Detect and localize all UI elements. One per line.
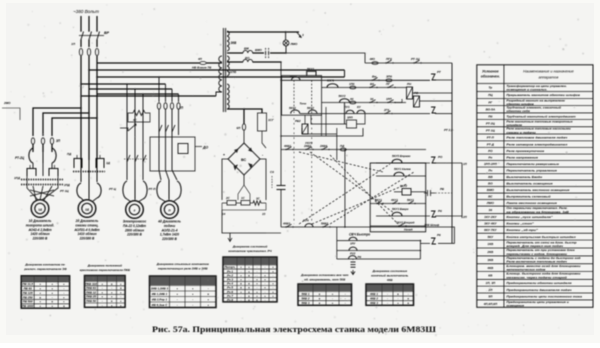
svg-text:Рб: Рб <box>438 209 442 213</box>
svg-text:-: - <box>177 303 178 307</box>
legend row 1КУ-2КУ <box>477 213 593 215</box>
svg-text:ЗПб: ЗПб <box>386 75 392 79</box>
contact 3RU2 <box>349 256 357 259</box>
svg-text:+: + <box>39 287 41 291</box>
svg-text:1ПД: 1ПД <box>14 176 21 180</box>
selector contact on rung2 <box>292 77 301 80</box>
legend row Пб <box>477 112 593 114</box>
svg-text:1КВ: 1КВ <box>487 242 494 246</box>
svg-text:+: + <box>63 282 65 286</box>
legend row ВМО <box>477 185 593 187</box>
svg-text:+: + <box>51 291 53 295</box>
svg-text:+: + <box>63 295 65 299</box>
svg-text:Выпрямитель селеновый: Выпрямитель селеновый <box>506 195 550 199</box>
svg-text:Рп: Рп <box>488 155 492 159</box>
wire tap B <box>97 76 345 78</box>
svg-text:ВВ: ВВ <box>488 175 493 179</box>
legend row 2П <box>477 285 593 287</box>
wire to fuses <box>80 40 82 48</box>
connector dashes <box>265 48 267 58</box>
svg-text:об. вешрамваемь, мот 5КВ: об. вешрамваемь, мот 5КВ <box>304 277 346 281</box>
svg-text:РТ-1Ц: РТ-1Ц <box>486 129 496 133</box>
contact PG3 <box>387 87 388 88</box>
wire rung6 <box>281 149 426 151</box>
svg-text:ИВ 2,Рпр 1: ИВ 2,Рпр 1 <box>152 297 168 301</box>
svg-text:ПВ 125: ПВ 125 <box>23 291 33 295</box>
fuse PD rung6 <box>340 148 346 151</box>
svg-text:5КУ: 5КУ <box>487 235 494 239</box>
wire bus L1 down <box>80 56 82 160</box>
wire mid vertical c <box>325 107 327 136</box>
wire bus L2 down <box>88 56 90 160</box>
wire transformer bottom to bridge <box>227 109 244 124</box>
svg-text:220/380 В: 220/380 В <box>126 233 142 237</box>
transformer Tr primary coil <box>219 56 222 62</box>
wire tap to M3 branch 2 <box>89 88 172 90</box>
dashed diagonal 3 <box>299 164 390 224</box>
dashed linkage vertical b <box>311 118 313 224</box>
wire M3 drop c <box>142 94 144 100</box>
svg-text:РТ-1Ц: РТ-1Ц <box>60 189 69 193</box>
svg-text:ВС: ВС <box>241 158 246 162</box>
svg-text:+: + <box>120 303 122 307</box>
svg-text:-: - <box>345 292 346 296</box>
legend row РТ-1Ц <box>477 126 593 128</box>
svg-text:+: + <box>63 300 65 304</box>
wire m1 mesh a <box>27 176 38 200</box>
thermal relay M2 heater 1 <box>77 183 81 198</box>
svg-text:4П,6П,6П: 4П,6П,6П <box>483 302 498 306</box>
svg-text:ПА-22 0,12кВт: ПА-22 0,12кВт <box>123 224 146 228</box>
motor M4 <box>161 201 179 219</box>
svg-text:1РП-2РП: 1РП-2РП <box>484 162 498 166</box>
svg-text:127В: 127В <box>229 70 237 74</box>
svg-text:Блокиров. вместо осей для бл: Блокиров. вместо осей для блокировки <box>506 264 581 268</box>
legend row РГ <box>477 98 593 100</box>
contact M3 tie <box>124 158 147 160</box>
transformer Tr core <box>222 28 224 112</box>
svg-text:Пч: Пч <box>488 169 492 173</box>
svg-text:1СГ: 1СГ <box>268 118 274 122</box>
svg-text:4П: 4П <box>197 57 203 61</box>
svg-text:Диаграмма остановки вне чет: Диаграмма остановки вне чет <box>300 273 349 277</box>
svg-text:-: - <box>262 153 263 157</box>
svg-text:1420 об/мин: 1420 об/мин <box>30 232 49 236</box>
contact DM rung2 <box>371 80 372 81</box>
wire bus L3 down <box>96 56 98 160</box>
contact M3 slashes <box>127 155 130 162</box>
svg-text:ПУ4: ПУ4 <box>303 219 309 223</box>
contactor tie band 2 <box>21 184 63 186</box>
wire m1 mid <box>32 144 34 148</box>
svg-text:РТ-П: РТ-П <box>149 187 157 191</box>
table 2IV 3IV <box>150 276 217 308</box>
wire m4 merge <box>161 199 166 202</box>
wire m1 cross <box>30 190 54 196</box>
contact 1RP <box>387 102 388 103</box>
legend row ЛМО <box>477 199 593 201</box>
wire cap drop <box>280 62 282 185</box>
wire rung6-rung7 vertical <box>344 150 346 228</box>
svg-text:Реле тепловое двигателя подач: Реле тепловое двигателя подач <box>506 136 567 140</box>
wire M1 drops <box>32 144 34 152</box>
svg-text:4КВ3: 4КВ3 <box>282 222 290 226</box>
svg-text:РО: РО <box>488 149 493 153</box>
wire left stub <box>2 108 20 120</box>
svg-text:крестового переключателя ПКВ: крестового переключателя ПКВ <box>80 268 131 272</box>
svg-text:Реле затворов электродвигател: Реле затворов электродвигател <box>506 142 567 146</box>
wire z to loop <box>426 242 430 244</box>
svg-text:4КУ1: 4КУ1 <box>390 198 398 202</box>
svg-text:1Пб: 1Пб <box>349 82 355 86</box>
svg-text:4д Двигатель: 4д Двигатель <box>157 220 181 224</box>
svg-text:4С: 4С <box>132 118 138 122</box>
wire vpravo <box>376 162 426 164</box>
svg-text:перемычками с кодов. блокировк: перемычками с кодов. блокировки <box>506 252 567 256</box>
fuse 3P c <box>50 138 53 144</box>
wire L3 drop <box>96 16 98 31</box>
svg-text:Кнопки „зб-при": Кнопки „зб-при" <box>506 228 538 232</box>
svg-text:АОЛ2-21-4: АОЛ2-21-4 <box>161 228 178 232</box>
svg-text:3П: 3П <box>56 139 61 143</box>
legend row 5КУ <box>477 232 593 234</box>
svg-text:Тр: Тр <box>488 86 492 90</box>
svg-text:Выключатель освещения: Выключатель освещения <box>506 181 552 185</box>
contact 3B <box>369 102 370 103</box>
svg-text:Диаграмма стыковых контактов: Диаграмма стыковых контактов <box>156 262 209 266</box>
svg-text:ИВ 1,2ИВ 1: ИВ 1,2ИВ 1 <box>152 292 168 296</box>
svg-text:Лампа местного освещения: Лампа местного освещения <box>505 201 557 205</box>
arrow down <box>351 272 355 275</box>
wire loop h2 <box>337 250 421 252</box>
wire res link right <box>266 232 281 234</box>
legend row 4КВ <box>477 263 593 265</box>
svg-text:НВ Взаим 7В: НВ Взаим 7В <box>192 66 212 70</box>
svg-text:1КУ-2КУ: 1КУ-2КУ <box>484 215 497 219</box>
legend row РТ-2Ц <box>477 118 593 120</box>
fuse 2P bank <box>157 103 160 109</box>
svg-text:-: - <box>63 287 64 291</box>
svg-text:Переключатель от сети на блок.: Переключатель от сети на блок. быстр <box>506 240 577 244</box>
svg-text:2КВ Шлиф: 2КВ Шлиф <box>423 223 440 227</box>
wire loop h3 <box>337 258 421 260</box>
contact PGb rung1 <box>385 62 386 63</box>
svg-text:5КУ3 Вверх: 5КУ3 Вверх <box>392 207 409 211</box>
coil RN <box>407 87 413 99</box>
wire res drop <box>238 185 244 194</box>
legend row 4П,6П,6П <box>477 299 593 301</box>
svg-text:-: - <box>192 303 193 307</box>
svg-text:220/380 В: 220/380 В <box>79 237 95 241</box>
switch VM humps <box>243 50 253 53</box>
motor M1 <box>31 200 49 218</box>
wire cap lower <box>280 190 282 228</box>
svg-text:Кнопка импульсная быстрых шпин: Кнопка импульсная быстрых шпиндел <box>506 235 575 239</box>
motor M3 <box>126 201 144 219</box>
contact 1RU <box>349 237 357 240</box>
svg-text:Переключатель с подачи до быст: Переключатель с подачи до быстрого ход <box>506 256 581 260</box>
svg-text:+: + <box>332 301 334 305</box>
wire rung7 <box>281 226 420 228</box>
svg-text:-: - <box>345 301 346 305</box>
svg-text:ПВ 1000: ПВ 1000 <box>22 304 34 308</box>
svg-text:+: + <box>51 282 53 286</box>
svg-text:ЛМО: ЛМО <box>290 42 299 46</box>
wire coil RN out <box>413 92 453 94</box>
svg-text:реключ. переключателя ЭФ: реключ. переключателя ЭФ <box>23 267 67 271</box>
svg-text:Реле промежуточное: Реле промежуточное <box>506 149 544 153</box>
svg-text:3б: 3б <box>489 208 493 212</box>
rheostat arrow <box>128 124 136 131</box>
wire tap A <box>89 69 345 71</box>
svg-text:Реле-включения тепловые пода: Реле-включения тепловые подач <box>506 260 567 264</box>
svg-text:-: - <box>241 298 242 302</box>
svg-text:ВМО: ВМО <box>487 188 495 192</box>
legend row Тр <box>477 83 593 85</box>
svg-text:Электронасос: Электронасос <box>123 220 147 224</box>
wire fuse to bridge <box>243 131 245 144</box>
contactor bracket M2 a <box>74 159 82 169</box>
wire loop right <box>419 241 421 259</box>
svg-text:5КУ2: 5КУ2 <box>307 106 314 110</box>
fuse 1P b <box>87 48 90 55</box>
wire rung4 <box>322 102 406 104</box>
svg-text:ПВ 63: ПВ 63 <box>24 287 33 291</box>
fuse 1P a <box>79 48 82 55</box>
svg-text:ВО-5А: ВО-5А <box>486 107 496 111</box>
svg-text:-: - <box>387 301 388 305</box>
svg-text:4КВ1: 4КВ1 <box>283 144 291 148</box>
motor M2 <box>78 200 96 218</box>
svg-text:Предохранители обмотки шпиндел: Предохранители обмотки шпинделя <box>506 281 571 285</box>
legend row 3КУ-4КУ <box>477 219 593 221</box>
wire tap M1 left 1 <box>33 108 81 136</box>
svg-text:ВМ: ВМ <box>244 47 249 51</box>
svg-text:ВР: ВР <box>104 31 110 35</box>
wire rung7 to bus <box>420 226 452 228</box>
table RC states <box>223 257 277 302</box>
contact 5KU1 bump <box>327 84 338 88</box>
svg-text:-: - <box>408 292 409 296</box>
svg-text:1д Двигатель: 1д Двигатель <box>29 219 52 223</box>
contact 4KV3 <box>285 226 286 227</box>
svg-text:+: + <box>207 303 209 307</box>
wire primary bottom <box>216 92 222 96</box>
wire L1 drop <box>80 16 82 31</box>
selector bottom contact a <box>291 110 300 114</box>
thermal relay RT-2C heater 3 <box>52 148 56 163</box>
svg-text:2КУ1: 2КУ1 <box>374 198 382 202</box>
contactor bracket M2 b <box>96 159 104 169</box>
rectifier VS bridge <box>228 143 260 175</box>
svg-text:ВО: ВО <box>488 181 493 185</box>
legend row КВ <box>477 270 593 272</box>
svg-text:вперед. Для перекл-ния подач: вперед. Для перекл-ния подач <box>506 244 563 248</box>
contact 2RU <box>349 247 357 250</box>
svg-text:-: - <box>177 297 178 301</box>
wire M3 drop a <box>126 84 128 100</box>
svg-text:-: - <box>273 298 274 302</box>
svg-text:Кнопки „стоп": Кнопки „стоп" <box>506 222 534 226</box>
svg-text:+: + <box>192 292 194 296</box>
svg-text:ПУ1: ПУ1 <box>344 105 350 109</box>
svg-text:-: - <box>398 297 399 301</box>
svg-text:+: + <box>51 304 53 308</box>
svg-text:2ПД: 2ПД <box>63 183 71 187</box>
resistor 2S <box>227 201 236 206</box>
contact 5KU3 vverh <box>392 212 402 216</box>
diode 4 <box>248 163 253 169</box>
svg-text:5КВ 2: 5КВ 2 <box>302 297 310 301</box>
svg-text:Рб: Рб <box>358 255 362 259</box>
wire 1SG down <box>262 131 266 148</box>
svg-text:14: 14 <box>222 212 226 216</box>
thermal relay M4 heaters <box>157 181 161 199</box>
svg-text:РТ-2Ц: РТ-2Ц <box>15 156 25 160</box>
connector stack <box>351 261 356 263</box>
switch VR pole 1 <box>80 30 82 32</box>
dashed to bus <box>435 192 452 194</box>
thermal contact RO <box>431 157 436 163</box>
legend row 1РП-2РП <box>477 159 593 161</box>
contact 2KV4 <box>321 149 322 150</box>
transformer Tr secondary 127V <box>227 56 229 61</box>
wire rung2 <box>281 79 430 81</box>
wire 3RP wiring <box>311 115 347 124</box>
svg-text:ПГ: ПГ <box>386 82 390 86</box>
diode 2 <box>248 148 253 153</box>
svg-text:2МО: 2МО <box>3 101 11 105</box>
contact M4 slashes <box>159 125 162 132</box>
svg-text:Условное: Условное <box>482 69 499 73</box>
legend row 1КВ <box>477 239 593 241</box>
svg-text:3КУ2 Вперед: 3КУ2 Вперед <box>396 221 415 225</box>
wire vpered <box>370 225 426 227</box>
table cross switch PKV <box>85 276 126 308</box>
wire bridge bottom <box>243 175 245 185</box>
contact 5KU1 vlev <box>394 172 404 176</box>
svg-text:~380 Вольт: ~380 Вольт <box>73 9 99 14</box>
wire M4 drops <box>158 109 160 170</box>
svg-text:РТ-1Ц: РТ-1Ц <box>411 57 420 61</box>
wire ro <box>426 162 430 164</box>
cap symbol RV <box>427 190 429 196</box>
wire lamp bottom <box>227 52 243 54</box>
brake unit DO inner <box>178 144 188 154</box>
svg-text:1П, 3П: 1П, 3П <box>486 281 496 285</box>
thermal contact RN <box>431 74 436 80</box>
svg-text:1410 об/мин: 1410 об/мин <box>77 232 96 236</box>
wire loop top <box>336 227 338 259</box>
wire m1 to contacts <box>32 163 34 168</box>
svg-text:5КУ5 Вправо: 5КУ5 Вправо <box>392 154 411 158</box>
svg-text:4КВ: 4КВ <box>386 278 394 282</box>
wire M3 drop b <box>134 89 136 100</box>
svg-text:Трансформатор на цепи управлен: Трансформатор на цепи управлен. <box>506 84 567 88</box>
wire res row down-left <box>222 210 266 233</box>
thermal relay M3 heaters <box>123 181 127 199</box>
wire to 1SG <box>244 109 262 113</box>
wire rung1 <box>365 62 452 64</box>
svg-text:Трубчатый магнитный электродви: Трубчатый магнитный электродвигат <box>506 114 576 118</box>
svg-text:Кнопки „пуск шпинделя": Кнопки „пуск шпинделя" <box>506 215 553 219</box>
earth arrow <box>297 33 302 38</box>
thermal contact Pb2 <box>431 238 436 244</box>
svg-text:-: - <box>387 292 388 296</box>
thermal contact RT rung5 <box>431 107 436 113</box>
dashed diagonal 2 <box>310 152 394 213</box>
fuse rung4 <box>350 101 356 104</box>
svg-text:-: - <box>192 297 193 301</box>
svg-text:Вб: Вб <box>370 82 374 86</box>
svg-text:переключающих реле 2ИВ и ЗИВ: переключающих реле 2ИВ и ЗИВ <box>158 266 208 270</box>
legend row РТ-Д <box>477 140 593 142</box>
svg-text:3КУ-4КУ: 3КУ-4КУ <box>484 222 497 226</box>
svg-text:Переключатель от при установке: Переключатель от при установке блок <box>506 248 575 252</box>
thermal relay RT-2C heater 1 <box>29 148 33 163</box>
svg-text:+: + <box>176 286 178 290</box>
table 4KV <box>366 284 414 305</box>
dashed diagonal 6 <box>330 172 414 224</box>
svg-text:+: + <box>39 304 41 308</box>
contact 3KU2 vpered <box>398 225 399 226</box>
wire tap to transformer <box>97 62 200 64</box>
svg-text:РВ: РВ <box>440 187 444 191</box>
contactor tie band M2 <box>73 171 105 173</box>
svg-text:Рис. 57а. Принципиальная элект: Рис. 57а. Принципиальная электросхема ст… <box>152 325 436 334</box>
svg-text:+: + <box>39 300 41 304</box>
legend row 3КВ <box>477 255 593 257</box>
svg-text:От перемычки переключател. Рел: От перемычки переключател. Реле <box>506 206 567 210</box>
diode 1 <box>234 149 239 154</box>
svg-text:-: - <box>63 291 64 295</box>
wire loop h1 <box>337 240 421 242</box>
switch VR pole 3 <box>96 30 98 32</box>
wire lower z <box>426 215 430 217</box>
svg-text:2Гб: 2Гб <box>383 108 389 112</box>
svg-text:ПВ 31,5: ПВ 31,5 <box>22 282 33 286</box>
wire tap M1 left 2 <box>43 113 89 136</box>
svg-text:5КУ2: 5КУ2 <box>339 94 346 98</box>
arrow ground left <box>229 233 231 241</box>
resistor 1S <box>241 201 250 206</box>
svg-text:6КУ-7КУ: 6КУ-7КУ <box>484 228 497 232</box>
dashed diagonal 1 <box>299 152 383 172</box>
fuse 1P c <box>95 48 98 55</box>
svg-text:РВ2: РВ2 <box>295 119 301 123</box>
svg-text:на образовании на блокировк. 1: на образовании на блокировк. 1кВ <box>506 210 568 214</box>
svg-text:4КВ 3: 4КВ 3 <box>369 301 378 305</box>
wire tap AB hook <box>344 70 346 77</box>
lamp LMO <box>283 40 289 46</box>
svg-text:Переключатель управления: Переключатель управления <box>506 169 557 173</box>
svg-text:5КУ1: 5КУ1 <box>290 75 297 79</box>
svg-text:Предохранители двигателя пода: Предохранители двигателя подач <box>506 288 571 292</box>
wire do link <box>195 146 202 148</box>
svg-text:3РП: 3РП <box>347 116 354 120</box>
wire m1 mesh b <box>42 176 58 200</box>
svg-text:Диаграмма положений: Диаграмма положений <box>87 264 123 268</box>
svg-text:Диаграмма контактов пе-: Диаграмма контактов пе- <box>24 263 65 267</box>
svg-text:Прерыватель магнитов обмотки ш: Прерыватель магнитов обмотки шлифов <box>506 93 580 97</box>
table 5KV <box>298 284 352 305</box>
svg-text:освещения: освещения <box>506 304 524 307</box>
svg-text:Пб: Пб <box>488 114 492 118</box>
diode 3 <box>234 165 239 171</box>
svg-text:Выключатель местного освещения: Выключатель местного освещения <box>506 188 569 192</box>
wire m1 mesh c <box>33 186 36 200</box>
svg-text:5КУ1: 5КУ1 <box>407 198 414 202</box>
